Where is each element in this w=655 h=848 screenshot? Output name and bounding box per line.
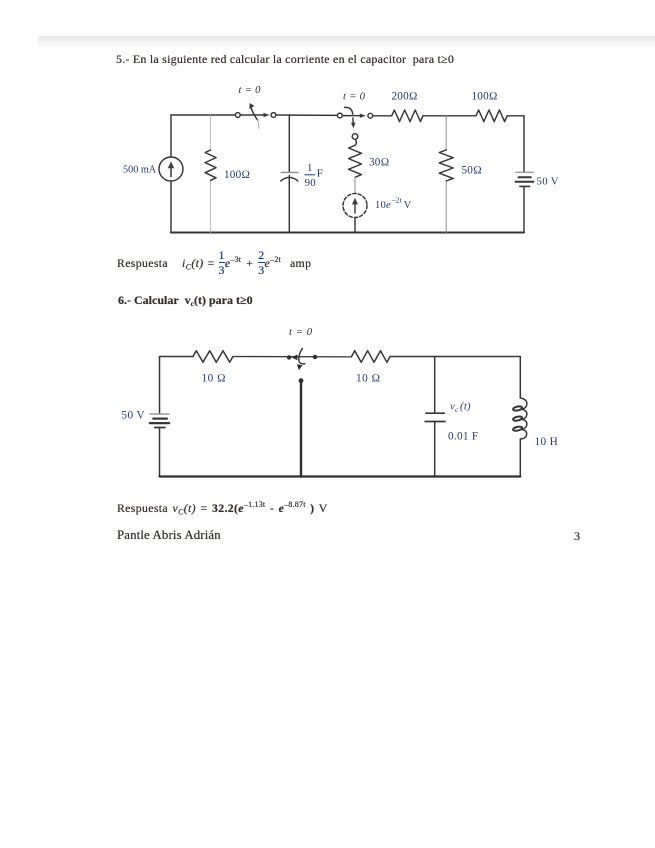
wire hook below contact [355, 140, 356, 146]
resistor 100ohm vertical [205, 150, 216, 180]
wire bottom [171, 232, 524, 234]
svg-text:1: 1 [307, 162, 313, 174]
node contact circle 30ohm branch [352, 134, 358, 140]
wire right vertical top [519, 357, 521, 398]
svg-text:90: 90 [305, 177, 316, 189]
node wire 100ohm branch (light) [210, 115, 212, 233]
svg-text:50 V: 50 V [122, 410, 145, 422]
resistor 100ohm top [476, 110, 507, 122]
resistor 50ohm [439, 150, 453, 181]
switch S2 t=0 [337, 107, 372, 128]
wire switch2 to 200ohm [373, 115, 392, 117]
svg-text:0.01 F: 0.01 F [448, 431, 478, 443]
svg-text:50 V: 50 V [537, 176, 559, 188]
svg-text:50Ω: 50Ω [462, 165, 482, 177]
inductor L1 coil [513, 398, 527, 439]
labels circuit 6 [122, 327, 559, 448]
wire between switch1 and switch2 [276, 114, 337, 116]
switch S3 t=0 [287, 349, 317, 371]
svg-text:t = 0: t = 0 [239, 85, 262, 96]
wire 30ohm to source [354, 177, 356, 193]
problem 5 title [116, 52, 516, 67]
battery V3 50V [150, 414, 169, 428]
wire capacitor branch bottom [434, 422, 436, 477]
svg-text:vc(t): vc(t) [450, 401, 471, 415]
top gray gradient band [38, 36, 655, 48]
switch S1 t=0 [235, 103, 275, 129]
battery V2 50V [516, 172, 534, 186]
svg-text:30Ω: 30Ω [369, 157, 389, 169]
wire bottom [160, 475, 521, 477]
capacitor C1 plates [281, 172, 298, 181]
resistor 30ohm [349, 145, 362, 177]
wire 50ohm branch [445, 116, 447, 233]
resistor R2 10ohm [352, 351, 391, 363]
wire R2 to right corner [390, 356, 520, 358]
wire source to bottom [354, 218, 356, 233]
node dot middle branch [299, 378, 304, 383]
resistor 200ohm [392, 110, 423, 122]
wire left vertical [159, 357, 161, 477]
svg-text:200Ω: 200Ω [392, 91, 418, 103]
footer name [117, 528, 221, 543]
svg-text:100Ω: 100Ω [472, 91, 498, 103]
wire R1 to switch [233, 356, 352, 358]
wire top: left corner to R1 [160, 356, 194, 358]
capacitor C2 plates [425, 413, 445, 421]
wire middle vertical (thick) [300, 383, 302, 477]
wire left vertical [170, 115, 172, 233]
labels circuit 5 [123, 85, 559, 211]
label 1/90 F [305, 162, 324, 189]
svg-text:10 Ω: 10 Ω [356, 373, 381, 385]
page number [574, 529, 580, 544]
svg-text:500 mA: 500 mA [123, 165, 157, 176]
svg-text:10 Ω: 10 Ω [202, 373, 227, 385]
svg-text:t = 0: t = 0 [343, 92, 366, 103]
wire right vertical [523, 116, 525, 233]
current source I1 500mA [159, 157, 183, 181]
svg-text:t = 0: t = 0 [289, 327, 313, 338]
resistor R1 10ohm [193, 351, 233, 363]
voltage source V1 10e-2t (dashed circle) [343, 194, 367, 218]
capacitor C1 branch wire [288, 115, 290, 233]
wire 100ohm to right corner [507, 115, 524, 117]
wire right vertical bottom [519, 439, 521, 477]
svg-text:10e–2tV: 10e–2tV [375, 196, 412, 212]
respuesta 5 line [117, 249, 311, 278]
svg-text:10 H: 10 H [535, 436, 559, 448]
wire 200ohm to 100ohm [423, 115, 476, 117]
svg-text:F: F [317, 168, 323, 180]
respuesta 6 line [117, 501, 328, 516]
wire top-left segment [171, 114, 235, 116]
wire capacitor branch top [434, 357, 436, 414]
svg-text:100Ω: 100Ω [224, 169, 250, 181]
problem 6 title [118, 293, 253, 308]
